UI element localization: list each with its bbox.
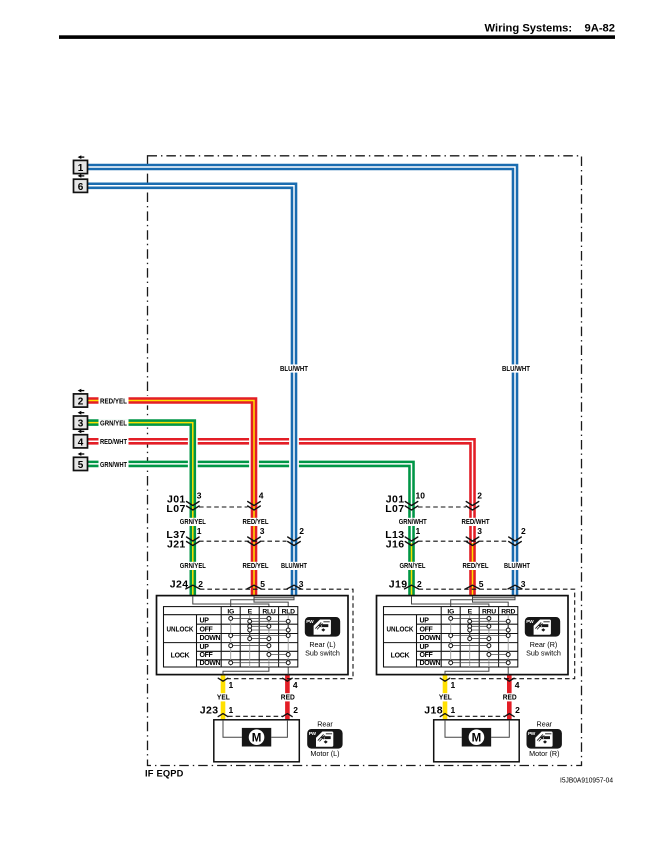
wire RED/YEL from connector 2 (crosses over): [88, 401, 255, 596]
wire label GRN/YEL: [178, 518, 207, 526]
svg-text:5: 5: [260, 579, 265, 589]
wire blue vertical overpass at crossings: [289, 430, 299, 480]
svg-text:3: 3: [197, 491, 202, 501]
svg-text:RED: RED: [503, 695, 517, 702]
svg-text:J18: J18: [424, 704, 443, 716]
svg-text:RED: RED: [281, 695, 295, 702]
svg-text:IG: IG: [447, 608, 454, 615]
svg-text:UNLOCK: UNLOCK: [167, 627, 194, 634]
svg-text:10: 10: [416, 491, 426, 501]
svg-text:Wiring Systems: 9A-82: Wiring Systems: 9A-82: [485, 23, 615, 35]
svg-text:IG: IG: [227, 608, 234, 615]
svg-text:UP: UP: [420, 644, 430, 651]
switch contacts: [449, 616, 510, 664]
switch contacts: [229, 616, 290, 664]
svg-text:4: 4: [515, 680, 520, 690]
IF EQPD boundary (dash-dot border): [148, 156, 582, 766]
svg-text:RLU: RLU: [262, 608, 275, 615]
wire RED switch(R) to motor(R): [507, 675, 512, 720]
pw icon for Rear Motor (R): [527, 729, 562, 749]
wire label RED/YEL: [241, 518, 270, 526]
svg-text:2: 2: [293, 705, 298, 715]
wire GRN/YEL lower segment of right green wire: [408, 543, 415, 596]
svg-text:2: 2: [198, 579, 203, 589]
svg-text:UP: UP: [200, 644, 210, 651]
Rear (R) Sub switch box outline: [377, 596, 569, 675]
column bus lines: [231, 615, 289, 667]
wire name label BLU/WHT left: [279, 364, 310, 372]
wire label RED: [501, 693, 518, 701]
svg-text:PW: PW: [528, 731, 536, 737]
svg-text:2: 2: [417, 579, 422, 589]
wire YEL switch(L) to motor(L): [221, 675, 226, 720]
connector J18: [450, 715, 505, 717]
header rule: [59, 35, 615, 39]
svg-text:UNLOCK: UNLOCK: [387, 627, 414, 634]
svg-text:RRD: RRD: [501, 608, 515, 615]
svg-text:1: 1: [229, 705, 234, 715]
svg-text:RRU: RRU: [482, 608, 496, 615]
svg-text:GRN/WHT: GRN/WHT: [100, 462, 128, 469]
contact table grid: [384, 607, 518, 667]
connector J01/L07 (left): [199, 506, 248, 508]
svg-text:2: 2: [299, 526, 304, 536]
pw icon for Rear Motor (L): [307, 729, 342, 749]
wire GRN/WHT from connector 5: [88, 464, 412, 543]
svg-text:Sub switch: Sub switch: [305, 648, 340, 657]
svg-text:GRN/WHT: GRN/WHT: [399, 519, 428, 526]
wire YEL switch(R) to motor(R): [443, 675, 448, 720]
svg-text:3: 3: [260, 526, 265, 536]
pw icon for Rear (R) Sub switch: [525, 617, 560, 637]
svg-text:6: 6: [78, 182, 84, 193]
internal wiring from contact table to output pins: [445, 667, 489, 675]
connector L37/J21 (left): [199, 540, 287, 542]
connector box 2 with arrow: [74, 394, 88, 407]
connector J24: [200, 589, 353, 679]
svg-text:J16: J16: [386, 538, 405, 550]
svg-text:PW: PW: [526, 619, 534, 625]
connector J19: [419, 589, 575, 679]
svg-text:4: 4: [78, 437, 84, 448]
wire GRN/YEL from connector 3 (crosses over): [88, 423, 193, 596]
wire RED/YEL lower segment of right red wire: [469, 543, 476, 596]
svg-text:2: 2: [78, 397, 84, 408]
svg-text:2: 2: [521, 526, 526, 536]
wire label GRN/YEL: [178, 562, 207, 570]
motor box Rear Motor (L): [214, 720, 299, 762]
wire label YEL: [215, 693, 231, 701]
internal wiring from connector pins to contact table: [473, 596, 509, 607]
wire label GRN/WHT: [397, 518, 428, 526]
svg-text:DOWN: DOWN: [420, 660, 441, 667]
wire label GRN/YEL: [398, 562, 427, 570]
svg-text:L07: L07: [166, 503, 185, 515]
wire label BLU/WHT: [280, 562, 309, 570]
svg-text:M: M: [472, 732, 482, 744]
svg-text:OFF: OFF: [200, 652, 214, 659]
column bus lines: [451, 615, 509, 667]
svg-text:Motor (R): Motor (R): [529, 749, 559, 758]
Rear (L) Sub switch box outline: [157, 596, 349, 675]
svg-text:4: 4: [259, 491, 264, 501]
wire BLU/WHT from connector 6 (second blue): [88, 186, 295, 596]
wire RED switch(L) to motor(L): [285, 675, 290, 720]
wiring to motor terminals: [223, 720, 242, 737]
svg-text:YEL: YEL: [217, 695, 230, 702]
connector box 1 with arrow: [74, 160, 88, 173]
svg-text:3: 3: [299, 579, 304, 589]
contact table grid: [164, 607, 298, 667]
connector box 5 with arrow: [74, 457, 88, 470]
svg-text:1: 1: [416, 526, 421, 536]
svg-text:YEL: YEL: [439, 695, 452, 702]
svg-text:GRN/YEL: GRN/YEL: [180, 563, 206, 570]
svg-text:BLU/WHT: BLU/WHT: [504, 563, 531, 570]
wire name label RED/WHT: [99, 438, 129, 446]
wire name label GRN/YEL: [99, 419, 129, 427]
wire RED/WHT from connector 4: [88, 441, 473, 543]
svg-text:3: 3: [521, 579, 526, 589]
svg-text:PW: PW: [306, 619, 314, 625]
svg-text:Motor (L): Motor (L): [310, 749, 339, 758]
svg-text:1: 1: [197, 526, 202, 536]
svg-text:LOCK: LOCK: [391, 653, 410, 660]
output pins of sub switch (J18 side): [440, 678, 450, 681]
svg-text:4: 4: [293, 680, 298, 690]
svg-text:UP: UP: [420, 617, 430, 624]
wire name label GRN/WHT: [99, 460, 129, 468]
svg-text:Rear: Rear: [537, 720, 553, 729]
svg-text:1: 1: [451, 705, 456, 715]
svg-text:DOWN: DOWN: [420, 635, 441, 642]
svg-text:OFF: OFF: [420, 626, 434, 633]
svg-text:Rear: Rear: [317, 720, 333, 729]
svg-text:RED/YEL: RED/YEL: [243, 563, 269, 570]
pw icon for Rear (L) Sub switch: [305, 617, 340, 637]
connector box 6 with arrow: [74, 179, 88, 192]
wire label RED: [279, 693, 296, 701]
wire name label RED/YEL: [99, 397, 129, 405]
wire label RED/WHT: [460, 518, 491, 526]
svg-text:J24: J24: [170, 578, 189, 590]
svg-text:DOWN: DOWN: [200, 635, 221, 642]
svg-text:GRN/YEL: GRN/YEL: [400, 563, 426, 570]
svg-text:BLU/WHT: BLU/WHT: [502, 366, 531, 373]
svg-text:GRN/YEL: GRN/YEL: [100, 421, 127, 428]
svg-text:2: 2: [477, 491, 482, 501]
svg-text:BLU/WHT: BLU/WHT: [280, 366, 309, 373]
svg-text:OFF: OFF: [200, 626, 214, 633]
wire label RED/YEL: [461, 562, 490, 570]
svg-text:BLU/WHT: BLU/WHT: [281, 563, 308, 570]
svg-text:RED/YEL: RED/YEL: [100, 398, 127, 405]
connector J01/L07 (right): [418, 506, 466, 508]
svg-text:J19: J19: [389, 578, 408, 590]
svg-text:UP: UP: [200, 617, 210, 624]
connector L13/J16 (right): [418, 540, 508, 542]
svg-text:DOWN: DOWN: [200, 660, 221, 667]
motor M symbol: [462, 728, 491, 747]
svg-text:L07: L07: [385, 503, 404, 515]
wire BLU/WHT from connector 1 (top blue): [88, 167, 516, 596]
motor M symbol: [242, 728, 271, 747]
svg-text:3: 3: [78, 419, 84, 430]
connector box 3 with arrow: [74, 416, 88, 429]
svg-text:RLD: RLD: [282, 608, 295, 615]
internal wiring from connector pins to contact table: [254, 596, 288, 607]
connector box 4 with arrow: [74, 435, 88, 448]
svg-text:5: 5: [479, 579, 484, 589]
output pins of sub switch (J23 side): [218, 678, 228, 681]
svg-text:M: M: [252, 732, 262, 744]
motor box Rear Motor (R): [434, 720, 520, 762]
wire label YEL: [437, 693, 453, 701]
svg-text:GRN/YEL: GRN/YEL: [180, 519, 206, 526]
svg-text:PW: PW: [309, 731, 317, 737]
svg-text:LOCK: LOCK: [171, 653, 190, 660]
svg-text:3: 3: [477, 526, 482, 536]
svg-text:RED/WHT: RED/WHT: [462, 519, 491, 526]
svg-text:RED/WHT: RED/WHT: [100, 439, 128, 446]
svg-text:RED/YEL: RED/YEL: [463, 563, 489, 570]
svg-text:I5JB0A910957-04: I5JB0A910957-04: [560, 778, 613, 785]
svg-text:5: 5: [78, 460, 84, 471]
svg-text:J21: J21: [167, 538, 186, 550]
svg-text:Sub switch: Sub switch: [526, 648, 561, 657]
svg-text:OFF: OFF: [420, 652, 434, 659]
wiring to motor terminals: [445, 720, 462, 737]
wire label BLU/WHT: [503, 562, 532, 570]
internal wiring from contact table to output pins: [223, 667, 269, 675]
svg-text:RED/YEL: RED/YEL: [243, 519, 269, 526]
svg-text:1: 1: [451, 680, 456, 690]
svg-text:IF EQPD: IF EQPD: [145, 769, 184, 779]
wire label RED/YEL: [241, 562, 270, 570]
svg-text:2: 2: [515, 705, 520, 715]
svg-text:J23: J23: [200, 704, 219, 716]
svg-text:1: 1: [229, 680, 234, 690]
wire name label BLU/WHT right: [501, 364, 532, 372]
svg-text:1: 1: [78, 163, 84, 174]
connector J23: [228, 715, 283, 717]
